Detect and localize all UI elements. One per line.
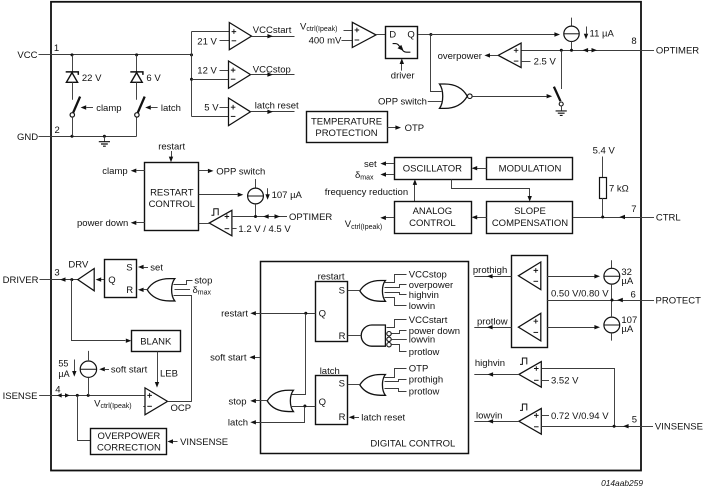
wire Vctrl out — [380, 216, 394, 220]
arrow set into S — [138, 265, 148, 269]
svg-text:S: S — [126, 262, 132, 273]
arrow VINSENSE into OC — [167, 439, 177, 443]
wire orS to S — [348, 290, 360, 292]
wire comp out to restart control — [199, 223, 210, 225]
label Vctrl(Ipeak) top — [300, 21, 337, 33]
label stop out — [229, 396, 247, 407]
label highvin out — [475, 358, 505, 369]
wire Q to current source — [431, 32, 560, 36]
ground symbol GND — [99, 136, 110, 146]
zener diode 22V — [66, 72, 79, 82]
node DRV-blank junction — [70, 278, 73, 281]
label soft start — [111, 365, 148, 376]
label clamp — [96, 103, 121, 114]
pulse glyph optimer comp — [211, 209, 218, 215]
svg-text:014aab259: 014aab259 — [601, 478, 643, 488]
comparator lowvin — [519, 408, 541, 434]
node vinsense junction — [613, 425, 616, 428]
label set osc — [364, 159, 377, 170]
gate OR restart-set — [360, 281, 386, 302]
node bus-12V junction — [190, 78, 193, 81]
wire highvin plus to rail — [542, 369, 615, 426]
svg-text:set: set — [364, 159, 377, 170]
svg-text:µA: µA — [621, 276, 633, 287]
svg-text:VCCstart: VCCstart — [409, 315, 448, 326]
label 1.2V/4.5V — [232, 224, 291, 235]
wire stop into OR — [174, 281, 193, 285]
wire 107uA to node — [255, 204, 257, 217]
wire OCP into OR — [174, 296, 192, 402]
label clamp out — [102, 166, 127, 177]
wire zener1 top — [72, 55, 74, 72]
label lowvin in — [409, 301, 435, 312]
label VCCstop in — [409, 270, 447, 281]
svg-text:PROTECT: PROTECT — [656, 295, 702, 306]
svg-text:OVERPOWER: OVERPOWER — [97, 431, 160, 442]
label overpower in — [409, 280, 453, 291]
wire OPTIMER pin stub — [641, 50, 654, 52]
node 107uA-optimer junction — [254, 215, 257, 218]
svg-text:2.5 V: 2.5 V — [534, 57, 557, 68]
buffer DRV — [78, 269, 94, 291]
wire GND rail — [51, 117, 137, 136]
label OPTIMER internal — [289, 212, 332, 223]
svg-text:8: 8 — [631, 36, 636, 47]
label VINSENSE internal — [180, 437, 228, 448]
wire restart Q out — [250, 311, 315, 315]
wire clamp out — [131, 169, 145, 173]
svg-text:LEB: LEB — [160, 369, 178, 380]
wire resistor to CTRL rail — [602, 198, 604, 217]
comparator prothigh — [518, 262, 540, 290]
switch clamp blade — [73, 97, 80, 113]
svg-text:5.4 V: 5.4 V — [593, 146, 616, 157]
wire zener2 to latch switch — [136, 82, 138, 99]
svg-text:12 V: 12 V — [197, 66, 217, 77]
svg-text:VCC: VCC — [17, 50, 37, 61]
wire set out — [380, 161, 394, 165]
block BLANK — [132, 331, 181, 352]
svg-text:highvin: highvin — [409, 290, 439, 301]
svg-text:TEMPERATURE: TEMPERATURE — [311, 117, 382, 128]
pin 7 CTRL label — [631, 204, 681, 224]
svg-text:SLOPE: SLOPE — [514, 206, 546, 217]
wire overpower in — [385, 285, 407, 288]
wire lowvin2 in — [391, 339, 407, 341]
svg-text:ANALOG: ANALOG — [413, 206, 453, 217]
svg-text:RESTART: RESTART — [150, 187, 194, 198]
wire ISENSE pin stub — [39, 395, 51, 397]
label 5.4V — [593, 146, 616, 157]
svg-text:0.50 V/0.80 V: 0.50 V/0.80 V — [551, 288, 609, 299]
label latch out — [228, 418, 248, 429]
label protlow out — [477, 316, 508, 327]
svg-text:S: S — [339, 285, 345, 296]
arrow latch — [145, 105, 157, 109]
wire zener1 to clamp switch — [72, 82, 74, 99]
flip-flop SR driver — [105, 260, 137, 298]
svg-text:µA: µA — [58, 369, 69, 379]
wire ISENSE to OC box — [78, 396, 91, 441]
wire osc to slope comp — [452, 180, 532, 202]
wire bus to 12V comp - — [192, 79, 229, 81]
wire LEB — [155, 351, 159, 387]
wire power down in — [392, 331, 407, 334]
svg-text:lowvin: lowvin — [409, 301, 435, 312]
svg-text:power down: power down — [77, 218, 128, 229]
label protlow in — [409, 347, 440, 358]
pin 5 VINSENSE label — [632, 414, 703, 432]
wire restartQ to stop gate — [289, 314, 306, 395]
svg-text:OPP switch: OPP switch — [216, 166, 265, 177]
comparator OCP — [145, 388, 168, 415]
svg-text:protlow: protlow — [409, 386, 440, 397]
wire lowvin out — [474, 419, 519, 423]
svg-text:DIGITAL CONTROL: DIGITAL CONTROL — [370, 438, 455, 449]
wire protlow out — [474, 325, 511, 329]
svg-text:BLANK: BLANK — [140, 336, 172, 347]
gate OR reset drv — [147, 279, 175, 301]
label stop drv — [194, 276, 212, 287]
wire 5.4V to resistor — [602, 157, 604, 178]
wire ISENSE rail — [51, 395, 145, 397]
label OPP switch out — [216, 166, 265, 177]
wire protlow2 in — [385, 389, 407, 392]
pin 5 arrow — [623, 424, 629, 428]
wire VCCstart out — [252, 34, 295, 38]
svg-text:DRV: DRV — [68, 260, 89, 271]
block OVERPOWER CORRECTION — [91, 429, 167, 455]
svg-text:DRIVER: DRIVER — [3, 275, 39, 286]
svg-text:PROTECTION: PROTECTION — [315, 128, 377, 139]
pin 4 ISENSE label — [3, 385, 61, 402]
svg-text:driver: driver — [391, 71, 415, 82]
wire DRV to BLANK — [72, 280, 132, 343]
gate OR stop — [267, 390, 293, 411]
wire modulation to oscillator — [472, 166, 487, 170]
label prothigh out — [473, 265, 507, 276]
wire VCC sense bus — [191, 32, 193, 117]
label 6V — [146, 73, 161, 84]
svg-text:3: 3 — [54, 267, 59, 278]
node Q branch — [429, 33, 432, 36]
svg-text:R: R — [339, 412, 346, 423]
pin 4 arrows — [57, 393, 70, 397]
switch latch contact — [135, 113, 139, 117]
node ISENSE-OC junction — [76, 394, 79, 397]
svg-text:set: set — [150, 262, 163, 273]
wire overpower out — [484, 53, 498, 57]
svg-text:VCCstop: VCCstop — [253, 64, 291, 75]
arrow restart into box — [169, 151, 173, 162]
node VCC-bus junction — [190, 53, 193, 56]
driver slope glyph — [393, 44, 411, 53]
switch latch blade — [138, 97, 145, 113]
pin 6 PROTECT label — [631, 290, 702, 307]
svg-text:latch reset: latch reset — [255, 101, 299, 112]
label 3.52V — [541, 376, 579, 387]
node restartQ junction — [304, 312, 307, 315]
svg-text:5: 5 — [632, 414, 637, 425]
svg-text:S: S — [339, 379, 345, 390]
wire Vctrl stub — [344, 30, 353, 32]
wire current source to OPTIMER rail — [571, 42, 573, 51]
label restart top — [158, 142, 185, 153]
svg-text:protlow: protlow — [409, 347, 440, 358]
wire protlow in — [392, 345, 407, 352]
wire VCC pin stub — [39, 54, 52, 56]
label set drv — [150, 262, 163, 273]
label power down — [77, 218, 128, 229]
label power down in — [409, 326, 460, 337]
svg-text:CORRECTION: CORRECTION — [97, 443, 161, 454]
svg-text:protlow: protlow — [477, 316, 508, 327]
svg-text:Q: Q — [407, 30, 414, 41]
svg-text:400 mV: 400 mV — [309, 35, 342, 46]
wire latch out — [250, 407, 304, 425]
wire protlow in wire — [547, 325, 600, 329]
wire VCCstop out — [251, 72, 295, 76]
wire slope to analog — [472, 215, 487, 219]
wire OTP out — [387, 125, 401, 129]
node protect junction — [611, 299, 614, 302]
wire latch Q out — [291, 406, 316, 408]
label frequency reduction — [325, 187, 408, 198]
label dmax osc — [355, 170, 374, 182]
svg-text:prothigh: prothigh — [473, 265, 507, 276]
label 107uA protect — [621, 315, 637, 335]
wire internal OPTIMER node — [232, 216, 287, 218]
svg-text:OTP: OTP — [405, 123, 425, 134]
label dmax drv — [193, 285, 212, 297]
label 7k — [609, 183, 629, 194]
svg-text:11 µA: 11 µA — [590, 28, 615, 39]
wire OTP in — [385, 369, 407, 378]
label latch — [161, 103, 181, 114]
resistor 7k — [600, 178, 607, 199]
current source 107uA protect — [604, 317, 620, 341]
comparator overpower 2.5V — [498, 43, 521, 68]
svg-text:1: 1 — [54, 43, 59, 54]
label restart out — [221, 309, 248, 320]
svg-text:2: 2 — [55, 125, 60, 136]
wire Q to DRV buffer — [96, 277, 105, 281]
svg-text:VINSENSE: VINSENSE — [655, 421, 703, 432]
optimer node arrows — [263, 214, 280, 218]
label DRV — [68, 260, 89, 271]
current source 11uA — [564, 18, 579, 42]
svg-text:CTRL: CTRL — [656, 212, 681, 223]
svg-text:VCCstart: VCCstart — [253, 25, 292, 36]
svg-text:restart: restart — [158, 142, 185, 153]
label VCCstart — [253, 25, 292, 36]
flip-flop SR latch — [316, 376, 348, 425]
pulse glyph lowvin — [520, 404, 527, 410]
label 11uA — [584, 27, 615, 40]
svg-text:OCP: OCP — [171, 403, 192, 414]
block SLOPE COMPENSATION — [487, 202, 573, 234]
flip-flop SR restart — [316, 282, 348, 342]
svg-text:7 kΩ: 7 kΩ — [609, 183, 629, 194]
svg-text:Q: Q — [319, 397, 326, 408]
svg-text:clamp: clamp — [102, 166, 127, 177]
svg-text:R: R — [126, 285, 133, 296]
comparator 5V latch-reset — [229, 98, 251, 126]
label Vctrl(Ipeak) analog — [345, 219, 382, 231]
comparator 21V VCCstart — [229, 23, 251, 50]
comparator optimer 1.2/4.5V — [209, 210, 232, 236]
svg-text:0.72 V/0.94 V: 0.72 V/0.94 V — [551, 411, 609, 422]
current source 32uA — [604, 260, 620, 284]
svg-text:MODULATION: MODULATION — [499, 164, 562, 175]
label 21V — [197, 36, 229, 47]
bubbles AND — [387, 332, 391, 347]
switch opp contact — [559, 102, 563, 106]
block MODULATION — [487, 158, 573, 180]
svg-text:latch: latch — [161, 103, 181, 114]
svg-text:21 V: 21 V — [197, 36, 217, 47]
arrow clamp — [81, 105, 93, 109]
wire dmax into OR — [175, 289, 191, 291]
svg-text:OSCILLATOR: OSCILLATOR — [403, 164, 462, 175]
svg-text:OPTIMER: OPTIMER — [656, 46, 699, 57]
comparator 12V VCCstop — [229, 61, 251, 88]
wire highvin out — [474, 372, 519, 376]
wire OPP switch out — [199, 169, 214, 173]
svg-text:soft start: soft start — [210, 353, 247, 364]
label overpower — [438, 51, 482, 62]
svg-text:ISENSE: ISENSE — [3, 391, 38, 402]
node rail-switch junction — [560, 49, 563, 52]
label 55uA — [58, 358, 76, 379]
svg-text:6 V: 6 V — [146, 73, 161, 84]
wire orS2 to S — [348, 384, 360, 386]
svg-text:OPP switch: OPP switch — [378, 97, 427, 108]
label VCCstop — [253, 64, 291, 75]
svg-text:7: 7 — [631, 204, 636, 215]
wire VINSENSE rail — [541, 426, 641, 428]
wire VINSENSE pin stub — [641, 426, 653, 428]
block DIGITAL CONTROL — [261, 262, 469, 454]
svg-text:µA: µA — [621, 324, 633, 335]
svg-text:highvin: highvin — [475, 358, 505, 369]
svg-text:COMPENSATION: COMPENSATION — [492, 218, 568, 229]
pin 1 VCC label — [17, 43, 59, 61]
svg-text:107 µA: 107 µA — [272, 190, 303, 201]
block protect comparators — [512, 256, 548, 348]
label prothigh in — [409, 375, 443, 386]
wire OCP out — [168, 401, 192, 403]
arrow latch reset in — [349, 415, 359, 419]
svg-text:OTP: OTP — [409, 363, 429, 374]
label 5V — [204, 103, 228, 114]
wire prothigh out — [474, 274, 511, 278]
svg-text:OPTIMER: OPTIMER — [289, 212, 332, 223]
wire CTRL pin stub — [641, 217, 654, 219]
label DIGITAL CONTROL — [370, 438, 455, 449]
label 400 mV — [309, 35, 353, 46]
comparator highvin — [519, 362, 541, 388]
pin 2 GND label — [17, 125, 60, 143]
label soft start out — [210, 353, 247, 364]
arrow driver into latch — [400, 58, 404, 70]
wire PROTECT rail — [547, 284, 641, 317]
svg-text:clamp: clamp — [96, 103, 121, 114]
wire OR to R — [138, 288, 147, 292]
svg-text:soft start: soft start — [111, 365, 148, 376]
current source soft start — [80, 351, 96, 378]
label 2.5V — [521, 57, 556, 68]
node VCC-zener2 junction — [135, 53, 138, 56]
svg-text:22 V: 22 V — [82, 73, 102, 84]
svg-text:6: 6 — [631, 290, 636, 301]
node ISENSE-softstart junction — [87, 394, 90, 397]
pin 7 arrow — [619, 215, 625, 219]
wire PROTECT pin stub — [641, 300, 654, 302]
svg-text:Q: Q — [108, 275, 115, 286]
svg-text:restart: restart — [221, 309, 248, 320]
node GND-clamp junction — [71, 135, 74, 138]
pin 6 arrow — [617, 298, 623, 302]
svg-text:VINSENSE: VINSENSE — [180, 437, 228, 448]
label LEB — [160, 369, 178, 380]
label 014aab259 — [601, 478, 643, 488]
label restart sr — [318, 272, 345, 283]
wire power down out — [131, 221, 145, 225]
ground symbol opp switch — [556, 106, 567, 115]
label VCCstart in — [409, 315, 448, 326]
svg-text:stop: stop — [229, 396, 247, 407]
label highvin in — [409, 290, 439, 301]
wire prothigh in wire — [547, 274, 600, 278]
svg-text:latch reset: latch reset — [361, 413, 405, 424]
label lowvin2 in — [409, 335, 435, 346]
node VCC-zener1 junction — [71, 53, 74, 56]
label OTP — [405, 123, 425, 134]
wire to 107uA source — [199, 193, 244, 197]
flip-flop D-Q driver latch — [386, 27, 418, 59]
label 12V — [197, 66, 228, 77]
svg-text:Q: Q — [319, 309, 326, 320]
pulse glyph highvin — [520, 358, 527, 364]
label latch reset — [255, 101, 299, 112]
wire highvin in — [385, 293, 407, 295]
node GND-ground junction — [103, 135, 106, 138]
svg-text:R: R — [339, 331, 346, 342]
block RESTART CONTROL — [145, 163, 199, 231]
svg-text:prothigh: prothigh — [409, 375, 443, 386]
label OPP switch in — [378, 97, 442, 108]
svg-text:4: 4 — [55, 385, 60, 396]
svg-text:lowvin: lowvin — [409, 335, 435, 346]
wire latch reset out — [251, 110, 295, 114]
label 22V — [82, 73, 102, 84]
label Vctrl(Ipeak) ocp — [94, 398, 145, 410]
wire pwm to D — [376, 34, 385, 36]
label protlow2 in — [409, 386, 440, 397]
svg-text:CONTROL: CONTROL — [149, 199, 195, 210]
wire Q out — [418, 34, 431, 36]
zener diode 6V — [130, 72, 143, 82]
label lowvin out — [476, 410, 502, 421]
pin 8 arrows — [583, 48, 598, 52]
wire OPTIMER rail — [521, 50, 641, 52]
svg-text:CONTROL: CONTROL — [409, 218, 455, 229]
wire zener2 top — [136, 55, 138, 72]
label 0.50/0.80 — [551, 288, 609, 299]
wire prothigh in — [385, 380, 407, 382]
svg-text:5 V: 5 V — [204, 103, 219, 114]
